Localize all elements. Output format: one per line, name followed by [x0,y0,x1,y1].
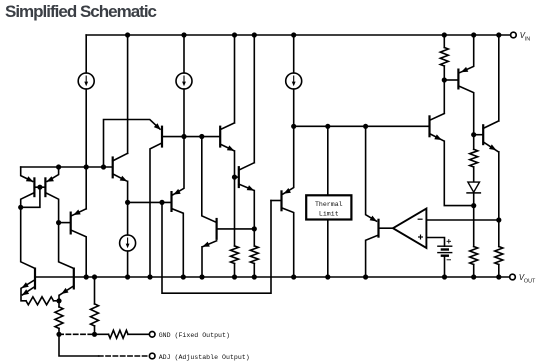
npn Q14 darlington 1 [430,35,474,206]
top supply rail to VIN [86,34,510,36]
wire R7 to node [54,300,60,302]
svg-text:Limit: Limit [319,211,339,218]
svg-text:ADJ (Adjustable Output): ADJ (Adjustable Output) [159,354,250,361]
pnp Q1 (left of mirror pair) [21,167,35,207]
pnp Q15 [444,35,473,135]
wire CS3 column [293,35,295,126]
wire op-amp plus input to reference [426,238,444,247]
resistor R8 [55,307,63,329]
terminal VOUT [510,274,516,280]
bottom output rail [35,276,510,278]
op-amp U1 error amplifier [393,209,426,248]
resistor R10 [109,330,129,338]
current source I3 [286,73,302,89]
wire thermal limit column [327,126,329,277]
current source I4 [120,235,136,251]
wire mirror base tie [21,187,46,207]
wire dashed GND link [59,333,95,335]
npn Q16 darlington 2 [474,35,499,277]
resistor R4 [495,247,503,265]
npn Q12 [235,35,255,277]
wire op-amp minus input [426,219,498,221]
wire Q4 collector column x127.6 [127,35,129,277]
diode D1 [466,182,481,193]
resistor R3 [470,247,478,265]
thermal limit box [306,195,351,219]
npn Q5 double emitter [21,268,35,301]
wire bottom loop to Q10 base [162,201,271,294]
current source I2 [176,73,192,89]
wire left emitter rail y167 [21,166,113,168]
wire x473.7 chain [473,135,475,277]
npn Q11 [220,35,234,277]
battery reference V1 [437,239,452,277]
npn Q9 (faces left) [202,137,255,278]
resistor R7 (Q5 emitter) [26,297,54,305]
npn Q4 [113,153,128,181]
npn Q6 [59,268,74,301]
terminal GND [149,332,155,338]
pnp Q10 [271,126,294,277]
wire ADJ lead [59,334,99,356]
pnp Q7 [150,126,220,277]
resistor R1 [440,48,448,67]
resistor R2 [470,149,478,167]
pnp Q2 (right of mirror pair) [45,167,58,223]
resistor R6 [250,246,258,264]
pnp Q8 [172,137,185,278]
wire mirror left collector down to Q5 [21,207,35,268]
wire CS1 column [85,35,87,209]
terminal VIN [511,32,517,38]
resistor R9 [91,304,99,326]
pnp Q3 [59,209,87,277]
wire mirror right collector down to Q6 [59,223,74,269]
wire node y202.4 [128,201,172,203]
svg-text:IN: IN [525,36,530,42]
wire riser and y119.5 link to Q7 emitter [104,120,161,168]
current source I1 [78,73,94,89]
pnp Q13 output driver [366,126,393,277]
wire node line to darlington base (y126) [294,125,430,127]
resistor R8 column [58,301,60,335]
wire CS2 column [183,35,185,137]
svg-text:Thermal: Thermal [315,201,343,208]
resistor R9 column [94,277,96,334]
svg-text:GND (Fixed Output): GND (Fixed Output) [159,332,230,339]
svg-text:OUT: OUT [524,278,536,284]
svg-text:Simplified Schematic: Simplified Schematic [5,2,157,21]
resistor R5 [231,246,239,264]
wire GND lead [95,333,150,335]
terminal ADJ [149,353,155,359]
